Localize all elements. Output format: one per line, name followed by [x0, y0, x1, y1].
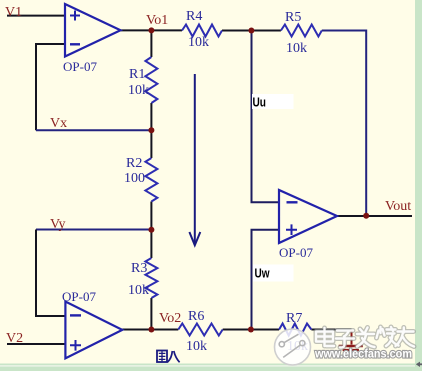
node Vy junction dot — [148, 227, 154, 233]
svg-text:Uu: Uu — [253, 95, 267, 110]
svg-text:OP-07: OP-07 — [279, 245, 313, 260]
figure caption 圖八 (hand drawn) — [157, 351, 180, 363]
发 — [357, 328, 375, 348]
wire U1 output to node Vo1 — [121, 29, 152, 31]
wire R4 to junction — [222, 30, 251, 32]
small gray return arrow bottom right — [420, 363, 422, 365]
wire R1 bottom lead to Vx node — [150, 103, 152, 130]
svg-text:R5: R5 — [285, 10, 301, 25]
wire R2 to Vy node — [150, 202, 152, 230]
wire R3 to Vo2 node — [150, 298, 152, 330]
wire U3 noninverting stub down to R6/R7 node — [252, 230, 280, 330]
svg-text:Uw: Uw — [255, 266, 271, 281]
op-amp U2 plus sign — [70, 340, 81, 351]
wire U1 inverting stub — [36, 44, 65, 130]
op-amp U1 plus sign — [70, 11, 80, 21]
green strip right — [415, 0, 422, 371]
圖 glyph — [157, 351, 167, 363]
resistor R2 100 vertical — [145, 158, 157, 201]
子 — [336, 331, 354, 348]
wire U3 output to Vout — [337, 215, 412, 217]
wire Vo2 to R6 — [151, 329, 178, 331]
node Vx junction dot — [148, 127, 154, 133]
wire Vy horizontal — [36, 229, 151, 231]
电 — [316, 328, 334, 346]
wire R5 to top right corner and down — [322, 31, 366, 216]
resistor R4 10k horizontal — [182, 25, 222, 37]
op-amp U3 minus sign — [287, 201, 298, 203]
node Vout junction dot — [363, 213, 369, 219]
svg-text:100: 100 — [124, 171, 145, 186]
友 — [396, 328, 415, 347]
wire Vo1 to R4 — [151, 29, 182, 31]
svg-text:Vx: Vx — [50, 116, 67, 131]
wire Vx horizontal — [36, 129, 151, 131]
ground (red earth symbol) — [351, 330, 353, 345]
resistor R3 10k vertical — [145, 258, 157, 298]
wire junction down to U3 inverting input — [252, 31, 280, 203]
current direction arrow — [194, 74, 196, 245]
green strip bottom — [0, 364, 422, 371]
wire R7 tail to ground — [311, 329, 351, 331]
watermark gear logo — [275, 329, 311, 365]
svg-text:R3: R3 — [131, 261, 147, 276]
wire V2 to U2 + input — [7, 343, 65, 345]
resistor R5 10k horizontal — [281, 25, 322, 37]
resistor R7 10k horizontal — [279, 324, 311, 336]
烧 — [377, 327, 399, 346]
svg-text:R6: R6 — [188, 309, 204, 324]
op-amp U1 triangle — [65, 4, 121, 57]
svg-text:10k: 10k — [188, 35, 209, 50]
wire R6 to R7 via junction — [223, 329, 279, 331]
svg-text:V1: V1 — [5, 5, 22, 20]
resistor R1 10k vertical — [145, 57, 157, 103]
node Uu label white patch — [252, 94, 294, 109]
op-amp U1 minus sign — [70, 43, 80, 45]
svg-text:OP-07: OP-07 — [62, 289, 96, 304]
wire U2 inverting stub — [36, 230, 65, 317]
resistor R6 10k horizontal — [178, 324, 222, 336]
wire Vy node to R3 — [150, 230, 152, 259]
svg-text:V2: V2 — [6, 331, 23, 346]
svg-text:10k: 10k — [186, 339, 207, 354]
watermark 电子发烧友 (hand drawn approximation) — [316, 327, 414, 347]
svg-text:www.elecfans.com: www.elecfans.com — [314, 347, 412, 361]
op-amp U3 plus sign — [286, 224, 297, 235]
svg-text:R7: R7 — [286, 311, 302, 326]
svg-text:OP-07: OP-07 — [63, 59, 97, 74]
op-amp U2 minus sign — [70, 314, 81, 316]
wire R1 top lead — [150, 30, 152, 57]
svg-text:R4: R4 — [186, 9, 202, 24]
svg-text:10k: 10k — [128, 83, 149, 98]
node Uw label white patch — [253, 265, 294, 282]
op-amp U3 triangle — [279, 190, 337, 243]
svg-text:Vy: Vy — [50, 217, 66, 232]
node Vo2 junction dot — [148, 327, 154, 333]
svg-text:10k: 10k — [286, 41, 307, 56]
node Vo1 junction dot — [148, 27, 154, 33]
node R6/R7 junction dot — [248, 327, 254, 333]
svg-text:Vout: Vout — [385, 199, 411, 214]
svg-text:10k: 10k — [128, 283, 149, 298]
wire V1 to op-amp U1 + input — [7, 15, 65, 17]
svg-text:R2: R2 — [126, 156, 142, 171]
wire Vx node to R2 — [150, 130, 152, 158]
svg-text:Vo2: Vo2 — [159, 311, 181, 326]
node R4/R5 junction dot — [248, 28, 254, 34]
八 glyph — [168, 351, 180, 362]
op-amp U2 triangle — [65, 302, 122, 359]
svg-text:R1: R1 — [129, 67, 145, 82]
wire U2 output to node Vo2 — [122, 329, 151, 331]
wire junction to R5 — [251, 30, 281, 32]
svg-text:Vo1: Vo1 — [146, 13, 168, 28]
